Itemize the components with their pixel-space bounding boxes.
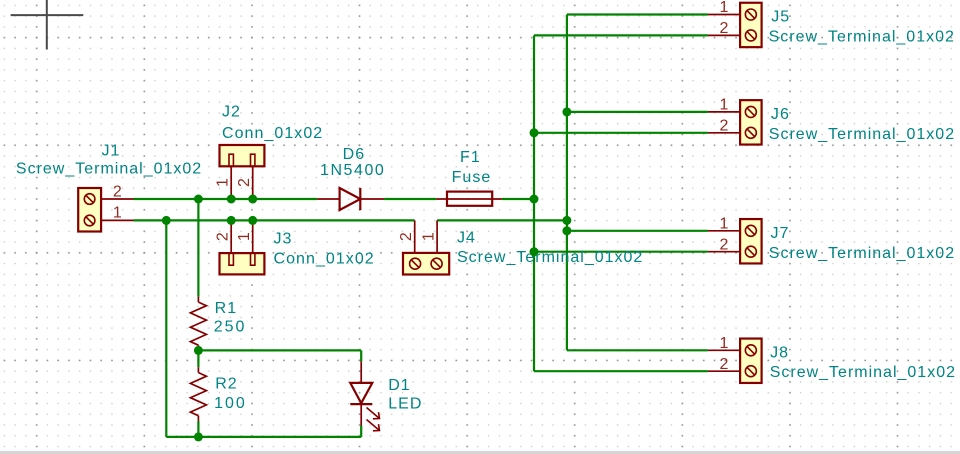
wire mid run to LED (198, 349, 361, 351)
svg-text:250: 250 (214, 319, 247, 336)
screw terminal J8 (708, 339, 762, 383)
wire LED bottom (360, 426, 362, 437)
wire LED top drop (360, 350, 362, 361)
svg-text:1: 1 (236, 232, 253, 241)
svg-text:LED: LED (388, 396, 422, 413)
svg-text:2: 2 (215, 232, 232, 241)
node wireB/J3.1 (248, 216, 257, 225)
svg-text:J6: J6 (771, 106, 790, 123)
svg-text:1: 1 (720, 97, 729, 114)
svg-text:Fuse: Fuse (452, 169, 492, 186)
svg-text:Screw_Terminal_01x02: Screw_Terminal_01x02 (457, 249, 643, 266)
screw terminal J5 (708, 3, 762, 47)
svg-text:2: 2 (720, 356, 729, 373)
connector J3 (220, 220, 265, 274)
node bus2/J7.1 (562, 226, 571, 235)
svg-text:J7: J7 (771, 225, 790, 242)
wire bus1 vertical (533, 35, 535, 371)
node wireA/bus1 (530, 195, 539, 204)
resistor R1 (190, 297, 206, 351)
wire B segment J4.1 to bus2 (437, 219, 567, 221)
wire A segment D6 to F1 (384, 198, 436, 200)
wire R1 to R2 (197, 350, 199, 367)
svg-text:Screw_Terminal_01x02: Screw_Terminal_01x02 (769, 126, 955, 143)
node wireA/R1 (194, 195, 203, 204)
wire to J8.1 (567, 349, 708, 351)
wire to J7.1 (567, 230, 708, 232)
wire to J8.2 (534, 370, 708, 372)
node R2/bottom (194, 432, 203, 441)
svg-text:2: 2 (720, 20, 729, 37)
node wireB/J3.2 (227, 216, 236, 225)
svg-text:F1: F1 (460, 149, 481, 166)
svg-text:1: 1 (215, 178, 232, 187)
bottom scrollbar strip (0, 451, 960, 454)
svg-text:J2: J2 (222, 103, 241, 120)
svg-text:J5: J5 (771, 9, 790, 26)
node wireA/J2.2 (248, 195, 257, 204)
svg-text:2: 2 (720, 118, 729, 135)
LED D1 (350, 361, 379, 430)
wire to J5.2 (534, 34, 708, 36)
node wireB/bus2 (562, 216, 571, 225)
svg-text:1: 1 (113, 205, 122, 222)
wire A segment J1.2 to D6 (134, 198, 318, 200)
screw terminal J7 (708, 219, 762, 263)
wire to J6.1 (567, 111, 708, 113)
screw terminal J4 (403, 220, 449, 274)
svg-text:1: 1 (421, 232, 438, 241)
fuse F1 (436, 192, 502, 206)
svg-text:Screw_Terminal_01x02: Screw_Terminal_01x02 (770, 364, 956, 381)
svg-text:1: 1 (720, 335, 729, 352)
svg-text:2: 2 (398, 232, 415, 241)
svg-text:1N5400: 1N5400 (320, 162, 385, 179)
svg-text:J4: J4 (457, 229, 476, 246)
svg-text:J3: J3 (274, 231, 293, 248)
sheet origin crosshair (11, 0, 84, 50)
svg-text:D1: D1 (388, 377, 411, 394)
node wireB/vert1 (162, 216, 171, 225)
svg-text:Conn_01x02: Conn_01x02 (222, 125, 323, 142)
connector J2 (220, 145, 265, 199)
svg-text:Conn_01x02: Conn_01x02 (274, 251, 375, 268)
wire bottom run (166, 436, 361, 438)
node wireA/J2.1 (227, 195, 236, 204)
svg-text:D6: D6 (343, 146, 366, 163)
wire A segment F1 to bus1 (502, 198, 534, 200)
svg-text:1: 1 (720, 0, 729, 16)
svg-text:R2: R2 (215, 376, 238, 393)
node R1/R2/mid (194, 346, 203, 355)
svg-text:J8: J8 (770, 344, 789, 361)
node bus2/J6.1 (562, 107, 571, 116)
svg-text:Screw_Terminal_01x02: Screw_Terminal_01x02 (769, 29, 955, 46)
resistor R2 (190, 367, 206, 421)
wire vertical left drop (165, 220, 167, 437)
screw terminal J6 (708, 100, 762, 144)
wire to J7.2 (534, 251, 708, 253)
svg-text:2: 2 (113, 183, 122, 200)
svg-text:2: 2 (236, 178, 253, 187)
node bus1/J7.2 (530, 247, 539, 256)
svg-text:J1: J1 (102, 143, 121, 160)
svg-text:Screw_Terminal_01x02: Screw_Terminal_01x02 (769, 245, 955, 262)
svg-text:Screw_Terminal_01x02: Screw_Terminal_01x02 (16, 161, 202, 178)
wire to J5.1 (567, 13, 708, 15)
wire bus2 vertical (566, 15, 568, 351)
node bus1/J6.2 (530, 128, 539, 137)
svg-text:1: 1 (720, 216, 729, 233)
svg-text:100: 100 (214, 395, 247, 412)
diode D6 (317, 188, 384, 210)
svg-text:2: 2 (720, 236, 729, 253)
wire to J6.2 (534, 132, 708, 134)
wire B segment J1.1 to J4.2 (134, 219, 415, 221)
svg-text:R1: R1 (215, 300, 238, 317)
wire R1 top feed (197, 199, 199, 297)
screw terminal J1 (78, 188, 133, 232)
wire R2 bottom (197, 421, 199, 437)
